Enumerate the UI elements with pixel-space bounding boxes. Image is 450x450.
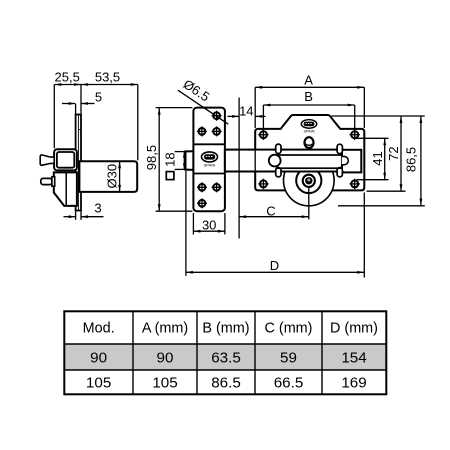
brand oval logo (middle view) — [202, 152, 218, 162]
svg-text:105: 105 — [152, 374, 177, 391]
svg-text:SPAIN: SPAIN — [303, 129, 314, 133]
latch tab at housing right — [342, 156, 349, 164]
knob top (side) — [40, 155, 54, 165]
cylinder outer circle — [284, 155, 335, 206]
dim line A — [255, 86, 364, 88]
main plate (front view) — [255, 115, 364, 190]
dim line 41 — [384, 138, 386, 179]
svg-text:169: 169 — [341, 374, 366, 391]
screw hole mid left — [197, 126, 207, 136]
extension line left of 25,5 — [53, 85, 55, 149]
cylinder center line — [308, 187, 310, 219]
svg-text:14: 14 — [239, 103, 253, 118]
svg-text:C (mm): C (mm) — [265, 321, 313, 337]
locking pin / keyhole — [305, 137, 314, 148]
mounting plate (side) — [76, 115, 81, 211]
row 90 gray background — [64, 344, 386, 370]
svg-text:3: 3 — [94, 200, 101, 215]
keeper bracket right — [342, 150, 361, 173]
svg-text:53,5: 53,5 — [95, 70, 120, 85]
bolt knob — [269, 155, 281, 167]
extension line D left — [185, 171, 187, 276]
lock body box (side) — [54, 149, 77, 170]
svg-text:A (mm): A (mm) — [142, 321, 188, 337]
dim line 14 — [228, 115, 240, 117]
dim line 5 — [62, 103, 76, 105]
plate screw hole bottom left — [258, 179, 268, 189]
svg-text:86,5: 86,5 — [404, 147, 419, 172]
dim O30 — [119, 161, 121, 192]
svg-text:98,5: 98,5 — [144, 145, 159, 170]
screw hole lower pair left — [197, 182, 207, 192]
svg-text:25,5: 25,5 — [55, 70, 80, 85]
screw hole top right — [212, 111, 222, 121]
svg-text:90: 90 — [90, 349, 107, 366]
table outer border — [64, 311, 386, 394]
dim line 30 — [193, 230, 225, 232]
cylinder housing O30 (side) — [79, 161, 137, 192]
svg-text:63.5: 63.5 — [211, 349, 241, 366]
lower body wedge (side) — [54, 172, 77, 206]
dim line 25,5 / 53,5 — [54, 84, 138, 86]
cylinder middle circle — [296, 168, 321, 193]
plate screw hole bottom right — [350, 179, 360, 189]
bolt inner housing — [277, 155, 341, 168]
svg-text:86.5: 86.5 — [211, 374, 241, 391]
plate screw hole top left — [258, 130, 268, 140]
svg-text:5: 5 — [95, 90, 102, 105]
dim line 86,5 — [420, 116, 422, 206]
table inner lines — [64, 343, 386, 345]
svg-text:18: 18 — [162, 152, 177, 166]
svg-text:66.5: 66.5 — [274, 374, 304, 391]
dim 72/86,5 top extension line — [332, 115, 425, 117]
svg-text:41: 41 — [370, 151, 385, 165]
dim 18 extension lines — [175, 151, 190, 153]
svg-text:105: 105 — [86, 374, 111, 391]
guide slot capsule bottom left — [276, 168, 281, 177]
plate screw hole top right — [350, 130, 360, 140]
dim line D — [186, 271, 364, 273]
guide plate (middle view) — [193, 108, 225, 212]
plate section divider top — [193, 143, 225, 145]
hub inner disc — [305, 177, 312, 184]
extension line bolt end (14/C) — [238, 98, 240, 239]
brand oval logo (front view) — [301, 120, 316, 129]
svg-text:59: 59 — [280, 349, 297, 366]
bolt bar — [225, 150, 342, 172]
dim line 3 — [64, 216, 76, 218]
svg-text:72: 72 — [386, 146, 401, 160]
dim 98,5 extension lines — [156, 107, 193, 109]
dim line B — [263, 104, 354, 106]
dim line C — [239, 216, 309, 218]
svg-text:SPAIN: SPAIN — [204, 163, 216, 168]
svg-text:Mod.: Mod. — [83, 321, 115, 337]
pin bottom (side) — [41, 178, 52, 184]
svg-text:A: A — [304, 72, 313, 87]
extension line D right — [363, 193, 365, 278]
screw hole bottom left — [197, 198, 207, 208]
svg-text:B (mm): B (mm) — [202, 321, 249, 337]
hub outer ring — [303, 175, 315, 187]
guide slot capsule bottom right — [337, 168, 342, 177]
extension line right of 53,5 — [137, 85, 139, 161]
dim 41 extension lines — [357, 137, 389, 139]
svg-text:D (mm): D (mm) — [330, 321, 378, 337]
svg-text:154: 154 — [341, 349, 366, 366]
svg-text:90: 90 — [157, 349, 174, 366]
svg-text:Ø30: Ø30 — [105, 164, 120, 189]
dim 30 extension lines — [192, 213, 194, 235]
extension line mid — [80, 85, 82, 114]
bolt end cap (middle view) — [186, 151, 194, 170]
screw hole mid right — [212, 126, 222, 136]
dim line 98,5 — [158, 108, 160, 212]
plate section divider bottom — [193, 173, 225, 175]
screw hole lower pair right — [212, 182, 222, 192]
guide slot capsule top left — [276, 144, 281, 153]
svg-text:B: B — [304, 89, 313, 104]
guide slot capsule top right — [337, 144, 342, 153]
dim line 18 — [183, 152, 185, 170]
svg-text:D: D — [270, 258, 279, 273]
svg-text:30: 30 — [202, 217, 216, 232]
plate left edge over bar — [254, 149, 256, 173]
leader line O6.5 — [178, 90, 228, 124]
dim line 72 — [400, 116, 402, 191]
